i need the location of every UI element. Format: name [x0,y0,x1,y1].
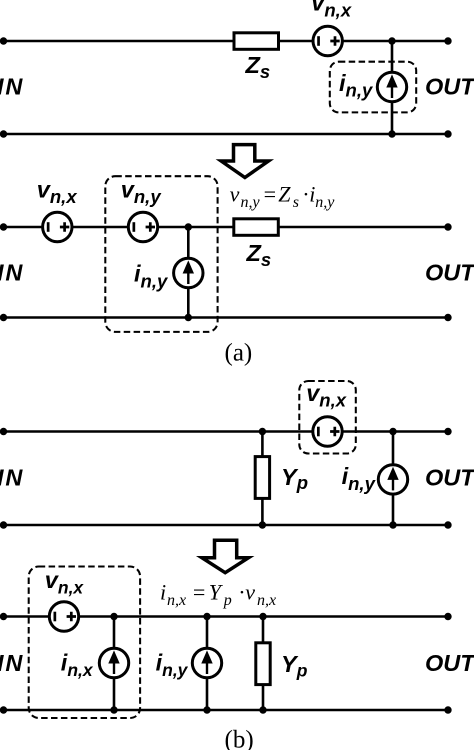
node IN bottom-left [0,521,7,528]
current source i_n,y [174,258,203,287]
junction bottom rail / branch [185,314,192,321]
node IN top-left [0,37,7,44]
current source i_n,y [377,72,406,101]
wire top rail left segment [4,615,50,618]
voltage source v_n,x [313,417,342,446]
node IN top-left [0,223,7,230]
wire i_n,x branch [113,617,116,711]
wire bottom rail [4,524,449,527]
transformation arrow (a) [221,145,268,178]
svg-text:IN: IN [0,465,24,491]
wire top rail between sources [72,226,128,229]
dashed box around i_n,y [330,62,416,113]
node IN top-left [0,428,7,435]
svg-text:OUT: OUT [425,650,474,676]
voltage source v_n,x [43,212,72,241]
node IN bottom-left [0,706,7,713]
current source i_n,x [99,648,128,677]
current source i_n,y [378,465,407,494]
wire shunt resistor top lead [261,432,264,457]
transformation arrow (b) [202,540,249,572]
node OUT bottom-right [444,314,451,321]
junction bottom rail / i_n,y [203,706,210,713]
svg-text:IN: IN [0,650,24,676]
junction bottom rail / branch [388,130,395,137]
dashed box around v_n,x [299,381,356,454]
svg-text:IN: IN [0,260,24,286]
wire shunt resistor top lead [262,617,265,643]
node OUT top-right [444,613,451,620]
resistor Yp (shunt) [255,457,269,499]
junction top rail / resistor [259,428,266,435]
current source i_n,y [192,648,221,677]
resistor Zs (series) [234,219,278,236]
dashed box around v_n,y and i_n,y [105,176,217,332]
svg-text:(a): (a) [225,340,253,367]
voltage source v_n,x [49,602,78,631]
wire top rail right segment [278,226,448,229]
wire vertical branch [187,227,190,318]
svg-text:OUT: OUT [425,74,474,100]
wire shunt resistor bottom lead [261,498,264,525]
wire top rail left segment [4,40,235,43]
node OUT bottom-right [444,521,451,528]
junction top rail / source [389,428,396,435]
resistor Zs (series) [234,33,279,50]
junction bottom rail / source [389,521,396,528]
node IN bottom-left [0,314,7,321]
node OUT top-right [444,428,451,435]
svg-text:OUT: OUT [425,465,474,491]
wire bottom rail [4,316,449,319]
junction bottom rail / i_n,x [110,706,117,713]
node IN top-left [0,613,7,620]
wire bottom rail [4,709,449,712]
resistor Yp (shunt) [256,643,270,685]
svg-text:IN: IN [0,74,24,100]
node IN bottom-left [0,130,7,137]
junction top rail / i_n,y [203,613,210,620]
wire current source branch [392,432,395,526]
junction top rail / branch [185,223,192,230]
wire top rail right segment [342,40,448,43]
dashed box around v_n,x and i_n,x [29,567,140,719]
wire top rail right segment [342,430,448,433]
wire top rail right segment [79,615,448,618]
wire top rail left segment [4,226,43,229]
node OUT bottom-right [444,130,451,137]
svg-text:OUT: OUT [425,260,474,286]
wire i_n,y branch [206,617,209,711]
wire vertical branch [391,41,394,134]
node OUT top-right [444,37,451,44]
node OUT bottom-right [444,706,451,713]
wire shunt resistor bottom lead [262,685,265,710]
junction top rail / branch [388,37,395,44]
wire bottom rail [4,133,449,136]
wire top rail source to resistor [158,226,234,229]
wire top rail between resistor and source [279,40,314,43]
junction top rail / resistor [259,613,266,620]
junction bottom rail / resistor [259,706,266,713]
voltage source v_n,y [128,212,157,241]
node OUT top-right [444,223,451,230]
voltage source v_n,x [313,26,342,55]
wire top rail left segment [4,430,313,433]
junction bottom rail / resistor [259,521,266,528]
junction top rail / i_n,x [110,613,117,620]
svg-text:(b): (b) [225,727,254,750]
